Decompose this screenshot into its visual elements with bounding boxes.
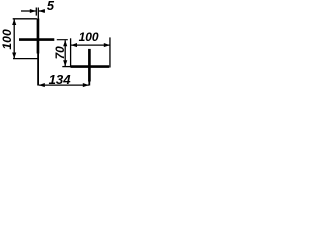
svg-text:5: 5 [47, 0, 55, 13]
extension line right of top 100 dimension [109, 37, 111, 67]
arrowhead 70 top (points up) [63, 40, 67, 46]
arrowhead 100-left bottom (points down) [12, 53, 16, 59]
dimension line 100 horizontal (top) [71, 44, 110, 46]
extension tick right of 5 dimension (centerline top) [37, 8, 39, 20]
dimension line 5 right tail [39, 10, 45, 12]
cross 2 horizontal extension line left to 70 dimension [62, 66, 70, 68]
dimension line 70 vertical [64, 40, 66, 66]
cross 1 vertical extension line down to 134 dimension [37, 52, 39, 86]
svg-text:70: 70 [53, 46, 67, 60]
centerline cross 2 vertical (thick) [88, 49, 91, 82]
centerline cross 2 horizontal (thick) [71, 65, 110, 68]
arrowhead 5 left (points right) [30, 9, 36, 13]
top reference line at end of cross 1 centerline [13, 18, 37, 20]
arrowhead 70 bottom (points down) [63, 60, 67, 66]
svg-text:134: 134 [49, 72, 72, 87]
cross 1 horizontal extension line right to 70 dimension [57, 39, 68, 41]
cross 2 vertical extension line down to 134 dimension [88, 80, 90, 86]
dimension line 5 left tail [21, 10, 36, 12]
arrowhead 134 left (points left) [39, 83, 45, 87]
centerline cross 1 vertical (thick) [37, 19, 40, 54]
dimension line 134 (bottom) [39, 84, 89, 86]
arrowhead 100-top right (points right) [104, 43, 110, 47]
extension tick left of 5 dimension [35, 8, 37, 16]
dimension line 100 vertical (left) [13, 19, 15, 59]
arrowhead 100-top left (points left) [71, 43, 77, 47]
svg-text:100: 100 [79, 30, 99, 44]
bottom reference line at end of cross 1 centerline [13, 58, 39, 60]
arrowhead 5 right (points left) [39, 9, 45, 13]
svg-text:100: 100 [0, 29, 14, 50]
centerline cross 1 horizontal (thick) [19, 38, 54, 41]
extension line left of top 100 dimension [70, 38, 72, 66]
arrowhead 134 right (points right) [83, 83, 89, 87]
arrowhead 100-left top (points up) [12, 19, 16, 25]
